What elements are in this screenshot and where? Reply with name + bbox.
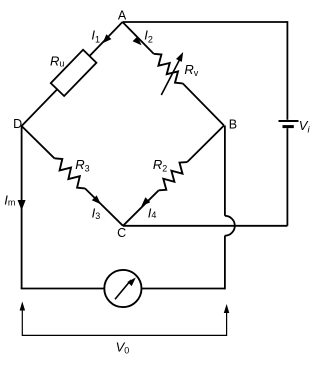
svg-text:A: A xyxy=(118,9,127,23)
svg-text:B: B xyxy=(229,118,237,132)
svg-text:C: C xyxy=(117,226,126,240)
svg-text:D: D xyxy=(13,117,22,131)
